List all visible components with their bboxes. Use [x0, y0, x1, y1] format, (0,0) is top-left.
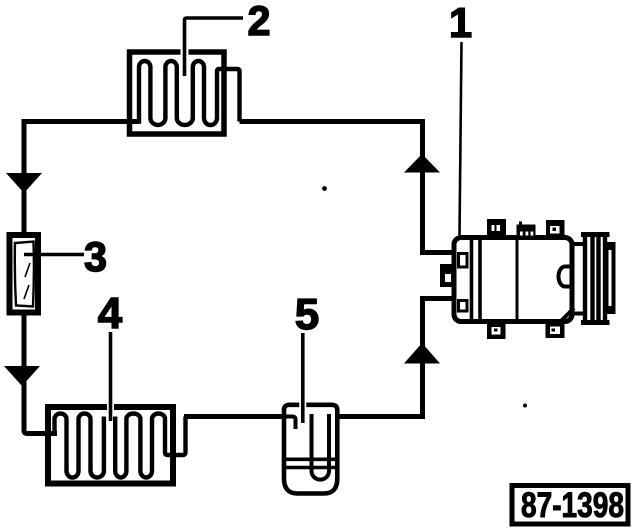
wire: upper right vertical down to compressor discharge port — [420, 119, 456, 253]
wire: bottom horizontal from evaporator outlet to accumulator inlet — [184, 414, 284, 419]
clutch pulley grooves — [585, 234, 605, 325]
evaporator 4: serpentine coil right half and outlet to the right — [115, 414, 185, 478]
evaporator 4: outer box — [48, 407, 173, 484]
svg-text:3: 3 — [84, 233, 107, 280]
speck dot below compressor — [523, 404, 527, 408]
accumulator 5: canister outline — [284, 405, 337, 494]
leader line of label 5 — [301, 333, 305, 423]
evaporator 4: serpentine coil left half — [53, 414, 104, 478]
wire: left vertical from receiver-drier 3 down then right to evaporator inlet — [24, 314, 57, 434]
top mounting lug left — [487, 219, 506, 236]
condenser 2: outer box — [130, 52, 225, 134]
suction port inner flange square — [459, 301, 468, 312]
clutch pulley top and bottom rims — [581, 235, 610, 323]
svg-text:4: 4 — [98, 289, 123, 338]
arrow: flow up on lower right vertical — [404, 343, 440, 364]
leader line of label 2 — [185, 18, 244, 76]
leader line halo for label 5 — [299, 333, 306, 418]
bridges between body and clutch pulley — [571, 244, 584, 314]
accumulator 5: liquid level lines — [284, 459, 337, 467]
arrow: flow up on upper right vertical — [404, 154, 440, 173]
bottom mounting lug right — [546, 323, 565, 339]
wire: top horizontal from condenser outlet to right vertical — [240, 119, 426, 124]
discharge port inner flange square — [459, 254, 468, 268]
figure number plate 87-1398 — [512, 486, 628, 525]
leader line halo for label 4 — [107, 332, 114, 419]
compressor body internal single seam line — [516, 238, 519, 322]
svg-text:2: 2 — [247, 0, 270, 44]
bottom mounting lug left — [487, 323, 506, 340]
leader line of label 4 — [109, 332, 113, 421]
wire: left vertical from top horizontal down to receiver-drier 3 — [22, 119, 27, 233]
wire: top-left horizontal from left vertical to condenser inlet — [24, 119, 139, 124]
compressor body — [454, 238, 572, 322]
suction port fitting block on left — [440, 264, 454, 287]
accumulator 5: inlet pipe hook inside — [282, 417, 296, 430]
speck dot left of upper right vertical — [322, 186, 327, 191]
wire: lower right vertical up to compressor suction port — [420, 299, 455, 420]
top mounting lug right — [546, 220, 565, 236]
receiver-drier 3: outer shell — [10, 235, 39, 313]
leader line halo for label 2 — [181, 22, 189, 73]
top middle terminal block — [517, 225, 536, 236]
compressor rear C-shaped boss on right edge — [559, 267, 572, 287]
svg-text:5: 5 — [295, 290, 319, 339]
leader line of label 3 — [24, 253, 84, 257]
compressor 1 — [440, 219, 616, 339]
compressor body internal double seam lines — [472, 238, 481, 322]
pulley nose bearing rectangle — [606, 242, 616, 314]
accumulator 5: internal U pickup tube — [312, 414, 330, 480]
arrow: flow down on left vertical below receiver-drier — [4, 366, 40, 386]
svg-text:1: 1 — [449, 0, 472, 46]
condenser 2: serpentine coil — [136, 61, 240, 125]
leader line of label 1 — [460, 42, 462, 235]
receiver-drier 3: sketch hatch marks — [24, 263, 30, 299]
receiver-drier 3: inner liner outline — [15, 242, 34, 307]
body bottom-right diagonal chamfer stroke — [558, 308, 574, 324]
arrow: flow down on left vertical above receiver-drier — [6, 173, 42, 193]
svg-text:87-1398: 87-1398 — [521, 486, 624, 525]
wire: bottom horizontal from accumulator outlet to lower right vertical — [337, 414, 425, 419]
